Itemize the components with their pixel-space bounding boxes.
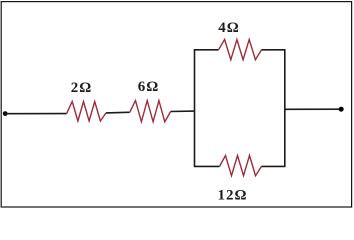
node B (right terminal dot) (339, 107, 344, 112)
wire (5, 113, 66, 115)
wire (top branch right) (262, 49, 286, 51)
resistor R1 2ohm (67, 102, 106, 122)
wire (106, 111, 130, 114)
svg-text:2Ω: 2Ω (71, 80, 93, 96)
wire (left vertical of parallel branch) (194, 50, 196, 167)
wire (171, 110, 195, 112)
svg-text:12Ω: 12Ω (217, 187, 247, 203)
svg-text:6Ω: 6Ω (138, 79, 160, 95)
wire (right stub) (285, 108, 341, 110)
wire (bottom branch right) (262, 165, 286, 167)
resistor R4 12ohm (220, 156, 262, 176)
wire (right vertical of parallel branch) (284, 50, 286, 167)
resistor R3 4ohm (219, 40, 262, 60)
wire (bottom branch left) (194, 165, 220, 167)
node A (left terminal dot) (3, 111, 8, 116)
svg-text:4Ω: 4Ω (218, 20, 240, 36)
wire (top branch left) (194, 49, 219, 51)
resistor R2 6ohm (130, 101, 171, 122)
